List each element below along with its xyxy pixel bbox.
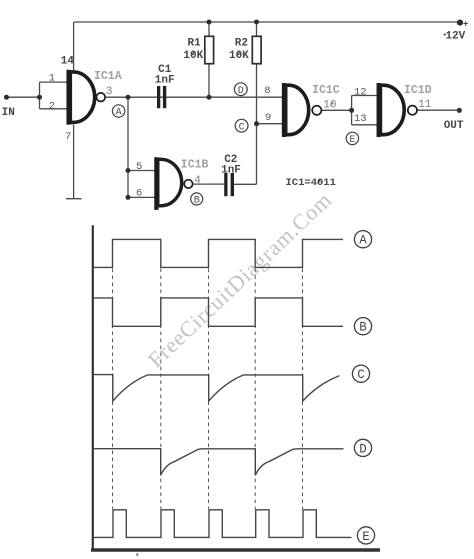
svg-text:3: 3 (106, 86, 113, 98)
svg-text:6: 6 (136, 188, 142, 200)
svg-text:7: 7 (65, 131, 71, 143)
svg-text:C: C (357, 368, 365, 382)
svg-text:10K: 10K (183, 50, 203, 62)
svg-text:10K: 10K (229, 50, 249, 62)
svg-text:14: 14 (61, 55, 75, 67)
svg-text:D: D (238, 86, 244, 97)
svg-text:FreeCircuitDiagram.Com: FreeCircuitDiagram.Com (143, 187, 337, 372)
svg-text:IC1D: IC1D (404, 84, 432, 97)
svg-text:IC1A: IC1A (94, 70, 122, 83)
svg-text:B: B (194, 196, 200, 207)
svg-text:11: 11 (418, 99, 432, 111)
svg-text:1: 1 (49, 73, 55, 85)
svg-text:R1: R1 (187, 37, 201, 49)
svg-text:E: E (362, 530, 370, 544)
svg-text:IC1B: IC1B (181, 158, 209, 171)
svg-text:2: 2 (49, 101, 55, 113)
svg-text:4: 4 (194, 175, 201, 187)
svg-text:12: 12 (354, 86, 367, 98)
svg-text:D: D (359, 442, 367, 456)
svg-text:B: B (359, 321, 367, 335)
svg-text:C: C (239, 122, 245, 133)
svg-text:IN: IN (2, 107, 15, 119)
svg-text:10: 10 (323, 100, 336, 112)
svg-text:IC1=4011: IC1=4011 (286, 177, 336, 189)
svg-text:12V: 12V (445, 30, 465, 42)
svg-text:5: 5 (136, 161, 142, 173)
svg-text:1nF: 1nF (221, 165, 241, 177)
svg-text:A: A (359, 234, 367, 248)
svg-text:+: + (463, 19, 468, 29)
svg-text:13: 13 (354, 113, 367, 125)
svg-text:1nF: 1nF (155, 75, 175, 87)
svg-text:9: 9 (265, 112, 271, 124)
svg-text:R2: R2 (235, 37, 248, 49)
svg-text:IC1C: IC1C (312, 84, 340, 97)
svg-text:OUT: OUT (444, 120, 464, 132)
svg-text:E: E (349, 135, 355, 146)
svg-text:8: 8 (264, 85, 270, 97)
svg-text:A: A (116, 108, 122, 119)
